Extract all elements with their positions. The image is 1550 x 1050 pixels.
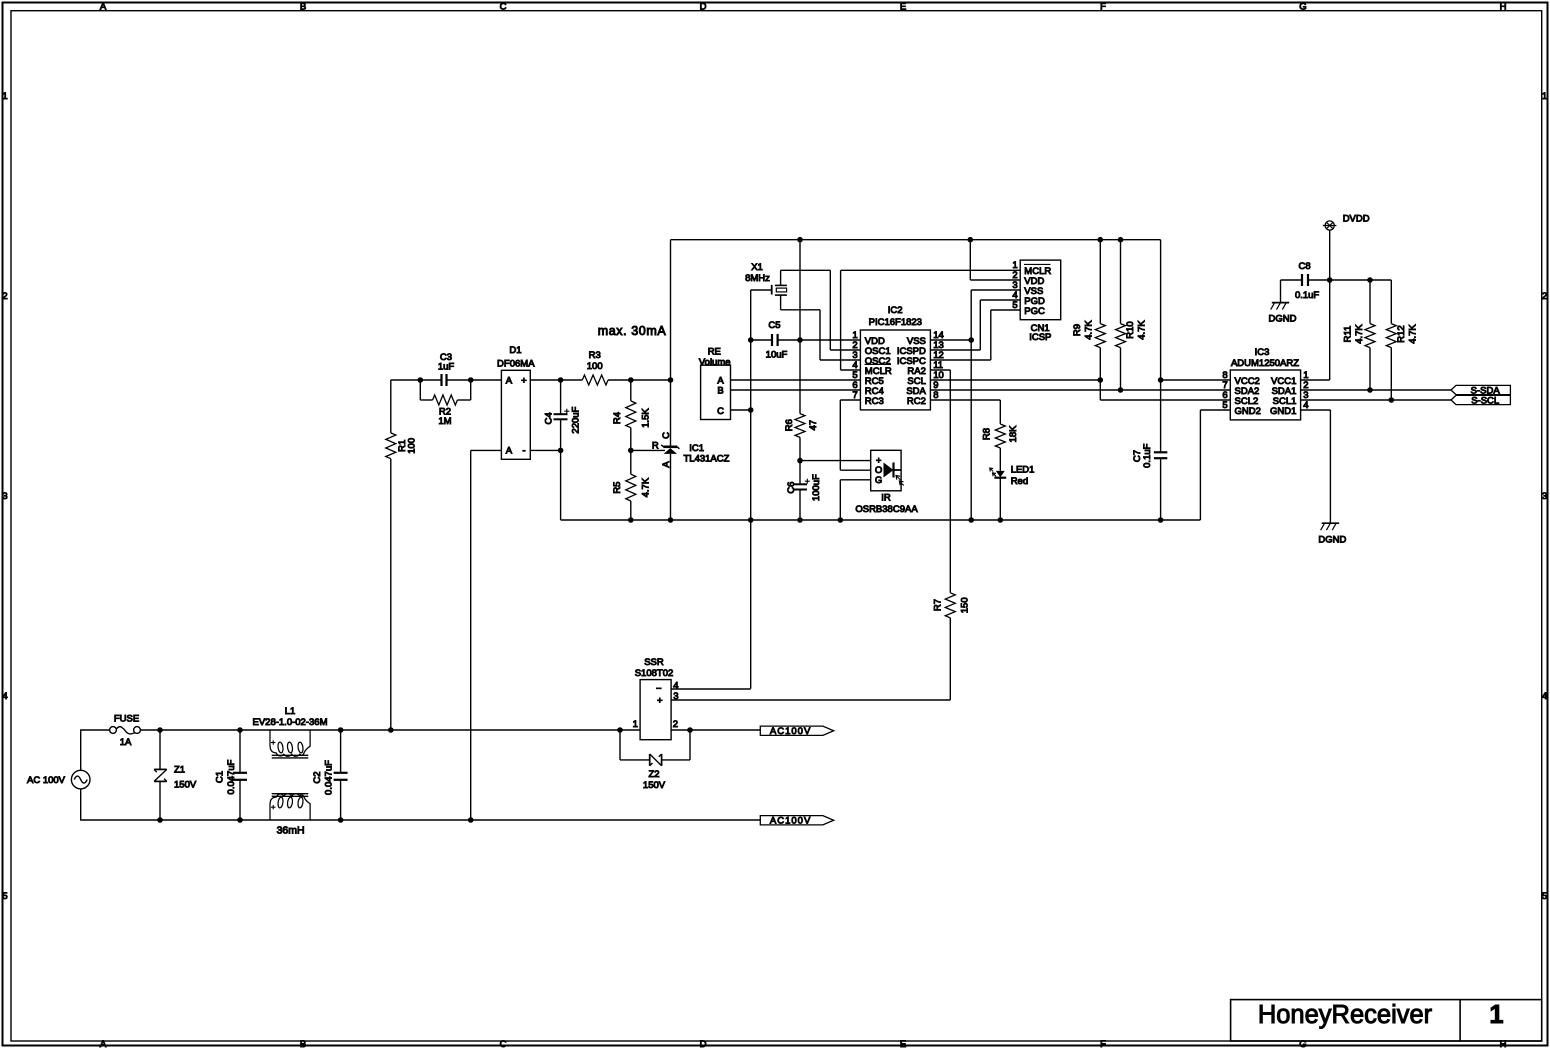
svg-text:100: 100 (407, 438, 418, 454)
svg-text:SSR: SSR (644, 657, 664, 668)
svg-text:150: 150 (959, 597, 970, 613)
svg-text:C5: C5 (768, 320, 780, 331)
svg-text:B: B (717, 386, 723, 397)
svg-text:3: 3 (1542, 491, 1547, 502)
svg-text:0.1uF: 0.1uF (1295, 290, 1319, 301)
svg-text:DF06MA: DF06MA (497, 359, 535, 370)
svg-text:1M: 1M (438, 416, 451, 427)
svg-text:Z2: Z2 (648, 769, 659, 780)
svg-text:PIC16F1823: PIC16F1823 (869, 317, 922, 328)
svg-text:G: G (875, 475, 882, 486)
svg-text:3: 3 (673, 691, 678, 702)
svg-text:LED1: LED1 (1011, 465, 1035, 476)
svg-text:C: C (717, 406, 724, 417)
svg-text:R7: R7 (933, 599, 944, 611)
svg-text:1: 1 (633, 719, 638, 730)
svg-text:100uF: 100uF (811, 474, 822, 501)
svg-text:C: C (500, 2, 507, 13)
svg-text:Red: Red (1011, 476, 1028, 487)
svg-text:C8: C8 (1299, 261, 1311, 272)
svg-text:S-SCL: S-SCL (1471, 395, 1499, 406)
svg-text:A: A (100, 2, 107, 13)
svg-text:+: + (521, 376, 527, 387)
svg-text:0.1uF: 0.1uF (1142, 443, 1153, 467)
svg-text:C: C (661, 432, 672, 439)
svg-text:EV28-1.0-02-36M: EV28-1.0-02-36M (253, 717, 328, 728)
svg-text:H: H (1500, 2, 1507, 13)
svg-text:10uF: 10uF (766, 350, 788, 361)
svg-text:D: D (700, 1039, 707, 1050)
svg-text:IC1: IC1 (689, 443, 704, 454)
svg-text:18K: 18K (1008, 425, 1019, 443)
svg-text:Z1: Z1 (174, 764, 185, 775)
svg-text:100: 100 (587, 361, 603, 372)
svg-text:4: 4 (673, 680, 678, 691)
svg-text:R12: R12 (1396, 325, 1407, 342)
svg-text:PGC: PGC (1024, 306, 1045, 317)
svg-text:2: 2 (2, 291, 7, 302)
svg-text:ICSP: ICSP (1029, 332, 1051, 343)
svg-text:B: B (300, 2, 306, 13)
svg-text:R10: R10 (1125, 321, 1136, 338)
svg-text:R5: R5 (612, 482, 623, 494)
svg-text:R9: R9 (1072, 324, 1083, 336)
svg-text:2: 2 (673, 719, 678, 730)
svg-text:R3: R3 (589, 350, 601, 361)
svg-text:R6: R6 (784, 419, 795, 431)
svg-text:A: A (100, 1039, 107, 1050)
svg-text:AC100V: AC100V (770, 726, 811, 737)
svg-text:C1: C1 (214, 771, 225, 783)
svg-text:5: 5 (1542, 891, 1547, 902)
svg-text:F: F (1100, 2, 1106, 13)
svg-text:36mH: 36mH (277, 824, 305, 836)
svg-text:AC 100V: AC 100V (27, 775, 66, 786)
svg-text:−: − (656, 684, 662, 695)
svg-text:X1: X1 (751, 262, 763, 273)
svg-text:D1: D1 (509, 345, 521, 356)
svg-text:L1: L1 (285, 706, 296, 717)
svg-text:4.7K: 4.7K (1354, 324, 1365, 344)
svg-text:1: 1 (1542, 91, 1547, 102)
svg-text:A: A (506, 376, 513, 387)
svg-text:Volume: Volume (699, 357, 731, 368)
svg-text:GND2: GND2 (1235, 406, 1261, 417)
svg-text:DGND: DGND (1269, 314, 1297, 325)
svg-text:HoneyReceiver: HoneyReceiver (1258, 1001, 1433, 1029)
svg-text:E: E (900, 1039, 906, 1050)
svg-text:G: G (1299, 2, 1306, 13)
svg-text:3: 3 (2, 491, 7, 502)
svg-text:F: F (1100, 1039, 1106, 1050)
svg-text:1: 1 (2, 91, 7, 102)
svg-text:4.7K: 4.7K (1136, 320, 1147, 340)
svg-text:C: C (500, 1039, 507, 1050)
svg-text:4.7K: 4.7K (1083, 320, 1094, 340)
svg-text:R: R (652, 440, 659, 451)
svg-text:OSRB38C9AA: OSRB38C9AA (855, 504, 918, 515)
svg-text:B: B (300, 1039, 306, 1050)
svg-text:C2: C2 (312, 771, 323, 783)
svg-text:0.047uF: 0.047uF (323, 760, 334, 795)
svg-text:4.7K: 4.7K (641, 477, 652, 497)
svg-text:RC2: RC2 (907, 396, 926, 407)
svg-text:max. 30mA: max. 30mA (598, 324, 667, 338)
svg-text:R8: R8 (981, 428, 992, 440)
svg-text:1: 1 (1489, 1001, 1503, 1029)
svg-text:A: A (506, 446, 513, 457)
svg-text:IC2: IC2 (888, 305, 903, 316)
svg-text:-: - (522, 446, 525, 457)
svg-text:S108T02: S108T02 (635, 668, 674, 679)
svg-text:4.7K: 4.7K (1408, 324, 1419, 344)
svg-text:RE: RE (708, 346, 721, 357)
svg-text:0.047uF: 0.047uF (226, 759, 237, 794)
svg-text:47: 47 (808, 420, 819, 431)
svg-text:D: D (700, 2, 707, 13)
svg-text:4: 4 (2, 691, 7, 702)
svg-text:AC100V: AC100V (770, 816, 811, 827)
svg-text:FUSE: FUSE (114, 714, 139, 725)
svg-text:A: A (661, 461, 672, 468)
svg-text:RC3: RC3 (865, 396, 884, 407)
svg-text:8MHz: 8MHz (745, 273, 770, 284)
svg-text:1uF: 1uF (438, 361, 455, 372)
svg-text:C6: C6 (786, 482, 797, 494)
svg-text:+: + (657, 696, 663, 707)
svg-text:150V: 150V (643, 780, 666, 791)
svg-text:R11: R11 (1342, 326, 1353, 343)
svg-text:150V: 150V (174, 779, 197, 790)
svg-text:GND1: GND1 (1270, 406, 1296, 417)
svg-text:R4: R4 (612, 412, 623, 424)
svg-text:ADUM1250ARZ: ADUM1250ARZ (1231, 358, 1299, 369)
svg-text:E: E (900, 2, 906, 13)
svg-text:IC3: IC3 (1255, 347, 1270, 358)
svg-text:1.5K: 1.5K (641, 408, 652, 428)
svg-text:IR: IR (881, 493, 891, 504)
svg-text:DGND: DGND (1318, 534, 1346, 545)
svg-text:220uF: 220uF (571, 406, 582, 433)
svg-text:TL431ACZ: TL431ACZ (684, 454, 730, 465)
svg-text:DVDD: DVDD (1343, 214, 1370, 225)
svg-text:C4: C4 (544, 412, 555, 424)
svg-text:1A: 1A (120, 737, 132, 748)
svg-text:5: 5 (2, 891, 7, 902)
svg-text:4: 4 (1542, 691, 1547, 702)
svg-text:2: 2 (1542, 291, 1547, 302)
